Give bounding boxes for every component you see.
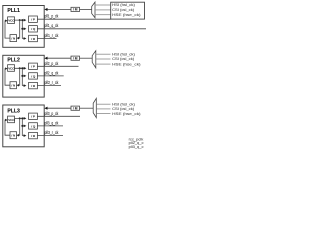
svg-text:/ Q: / Q (31, 27, 36, 31)
svg-text:CSI (csi_ck): CSI (csi_ck) (112, 8, 134, 12)
svg-text:pll1_q_ck: pll1_q_ck (45, 23, 59, 28)
svg-text:/ P: / P (31, 18, 35, 22)
svg-text:/ N: / N (11, 84, 15, 88)
svg-text:pll2_q_ck: pll2_q_ck (45, 70, 59, 75)
svg-text:VCO: VCO (8, 118, 15, 122)
svg-text:pll3_p_ck: pll3_p_ck (45, 111, 59, 116)
svg-text:pll1_r_ck: pll1_r_ck (45, 33, 59, 38)
svg-text:HSE (hse_ck): HSE (hse_ck) (112, 13, 141, 17)
svg-text:/ Q: / Q (31, 124, 36, 128)
svg-text:HSI (hsi_ck): HSI (hsi_ck) (112, 103, 135, 107)
svg-text:/ N: / N (11, 134, 15, 138)
svg-text:pll3_q_c: pll3_q_c (129, 144, 144, 149)
svg-text:pll3_r_ck: pll3_r_ck (45, 130, 59, 135)
svg-text:PLL1: PLL1 (7, 8, 20, 14)
svg-text:/ M: / M (73, 57, 78, 61)
svg-text:HSE (hse_ck): HSE (hse_ck) (112, 112, 141, 116)
svg-text:/ P: / P (31, 115, 35, 119)
svg-text:VCO: VCO (8, 66, 15, 70)
svg-text:pll1_p_ck: pll1_p_ck (45, 14, 59, 19)
svg-text:VCO: VCO (8, 19, 15, 23)
svg-text:pll3_q_ck: pll3_q_ck (45, 120, 59, 125)
svg-text:HSI (hsi_ck): HSI (hsi_ck) (112, 53, 135, 57)
svg-text:CSI (csi_ck): CSI (csi_ck) (112, 57, 134, 61)
svg-text:HSI (hsi_ck): HSI (hsi_ck) (112, 3, 135, 7)
svg-text:pll2_p_ck: pll2_p_ck (45, 61, 59, 66)
svg-text:/ M: / M (73, 107, 78, 111)
svg-text:PLL3: PLL3 (7, 108, 20, 114)
svg-text:CSI (csi_ck): CSI (csi_ck) (112, 107, 134, 111)
svg-text:/ M: / M (73, 8, 78, 12)
svg-text:pll2_r_ck: pll2_r_ck (45, 80, 59, 85)
svg-text:PLL2: PLL2 (7, 58, 20, 64)
svg-text:/ N: / N (11, 37, 15, 41)
svg-text:/ Q: / Q (31, 74, 36, 78)
svg-text:HSE (hse_ck): HSE (hse_ck) (112, 62, 141, 66)
svg-text:/ P: / P (31, 65, 35, 69)
